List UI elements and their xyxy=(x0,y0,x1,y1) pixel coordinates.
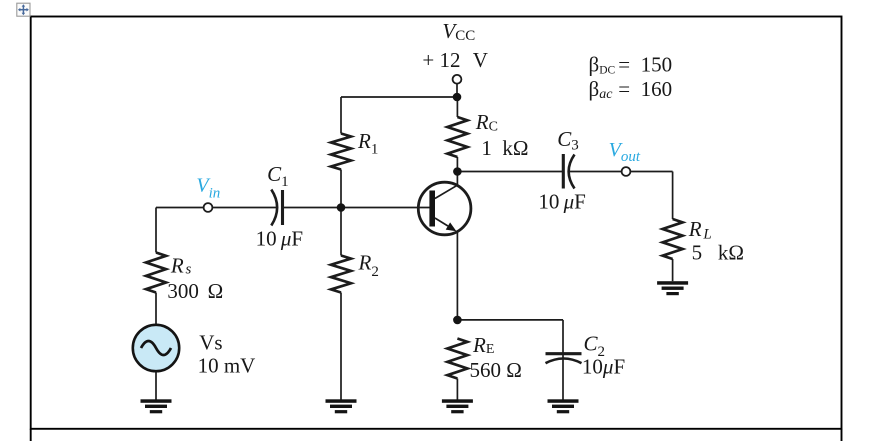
svg-text:10 μF: 10 μF xyxy=(256,227,303,251)
svg-text:5 kΩ: 5 kΩ xyxy=(692,241,744,265)
svg-text:10 mV: 10 mV xyxy=(198,354,256,378)
svg-text:1 kΩ: 1 kΩ xyxy=(481,136,528,160)
svg-text:+ 12 V: + 12 V xyxy=(422,48,488,72)
svg-text:Vs: Vs xyxy=(199,331,222,355)
svg-text:560 Ω: 560 Ω xyxy=(470,358,522,382)
svg-text:10 μF: 10 μF xyxy=(538,189,585,213)
svg-text:300 Ω: 300 Ω xyxy=(167,279,223,303)
svg-text:10μF: 10μF xyxy=(582,355,625,379)
